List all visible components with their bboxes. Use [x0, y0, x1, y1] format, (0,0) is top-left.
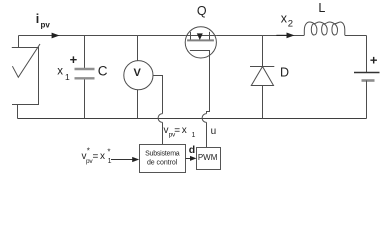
MOSFET source lead — [210, 35, 217, 37]
wire top bus: inductor to battery corner — [345, 35, 367, 37]
inductor L coil — [304, 22, 345, 35]
svg-text:1: 1 — [192, 132, 196, 139]
svg-text:PWM: PWM — [198, 153, 218, 162]
reference input arrow shaft — [111, 159, 135, 161]
svg-text:2: 2 — [288, 19, 293, 30]
wire top bus: voltmeter to MOSFET — [138, 35, 186, 37]
svg-text:D: D — [280, 66, 289, 80]
svg-text:C: C — [98, 63, 108, 78]
voltmeter tap wire to hop — [153, 76, 163, 114]
svg-text:*: * — [107, 148, 110, 157]
wire: battery right drop — [366, 36, 368, 73]
battery bottom wire — [366, 81, 368, 119]
svg-text:*: * — [87, 147, 90, 156]
svg-text:x: x — [100, 151, 105, 162]
MOSFET channel (gray) — [187, 39, 214, 41]
svg-text:=: = — [93, 152, 99, 163]
voltmeter circle — [124, 61, 153, 90]
MOSFET Q circle — [185, 27, 216, 58]
control subsystem box — [140, 145, 186, 173]
diode D wire bottom — [262, 86, 264, 119]
x_2 arrow shaft — [276, 34, 288, 36]
wire top bus left: PV to capacitor — [19, 35, 85, 37]
battery top long plate — [354, 72, 380, 74]
diode D wire top — [262, 36, 264, 67]
svg-text:Subsistema: Subsistema — [145, 150, 180, 157]
capacitor C plates — [75, 68, 95, 70]
x_2 current arrowhead — [287, 33, 295, 39]
reference arrowhead — [132, 157, 139, 162]
battery short plate — [362, 79, 375, 82]
MOSFET left bar — [190, 32, 192, 41]
wire top bus: diode junction to inductor — [262, 35, 304, 37]
d arrow shaft — [186, 158, 193, 160]
MOSFET gate bar and lead down — [190, 51, 210, 114]
wire top bus: capacitor to voltmeter — [85, 35, 138, 37]
wire: PV top to top bus — [18, 36, 20, 48]
svg-text:+: + — [370, 52, 378, 67]
svg-text:1: 1 — [108, 158, 112, 165]
svg-text:x: x — [182, 125, 187, 136]
bottom bus — [18, 118, 367, 120]
d arrowhead — [190, 156, 197, 161]
svg-text:V: V — [134, 67, 142, 79]
PV diagonal arrow (check) — [12, 44, 40, 77]
wire: hop to control box top — [162, 122, 164, 144]
svg-text:pv: pv — [41, 20, 51, 29]
svg-text:L: L — [318, 1, 325, 15]
MOSFET right bar — [209, 32, 211, 41]
svg-text:d: d — [189, 144, 195, 156]
wire hop over bus (u) — [202, 114, 206, 123]
wire: PV bottom to bottom bus — [17, 105, 19, 119]
svg-text:+: + — [70, 52, 78, 67]
diode D triangle — [251, 67, 273, 86]
wire top bus: MOSFET to diode junction — [216, 35, 262, 37]
voltmeter wires — [137, 36, 139, 61]
capacitor C vertical wires — [84, 36, 86, 70]
svg-text:i: i — [36, 12, 39, 26]
diode D cathode bar — [250, 66, 274, 68]
svg-text:x: x — [57, 66, 63, 78]
PWM box — [197, 148, 221, 170]
MOSFET bulk arrow (down triangle) — [197, 33, 203, 40]
svg-text:=: = — [174, 126, 180, 137]
wire hop over bus (v_pv) — [158, 114, 162, 123]
i_pv current arrowhead — [52, 33, 60, 39]
svg-text:1: 1 — [65, 72, 70, 82]
MOSFET internals: drain lead — [185, 35, 190, 37]
svg-text:de control: de control — [147, 159, 178, 166]
svg-text:u: u — [211, 126, 217, 137]
MOSFET source-drain top link — [191, 35, 210, 37]
wire: hop to PWM box top — [206, 122, 208, 147]
PV source panel symbol — [12, 36, 40, 119]
svg-text:Q: Q — [197, 4, 207, 18]
